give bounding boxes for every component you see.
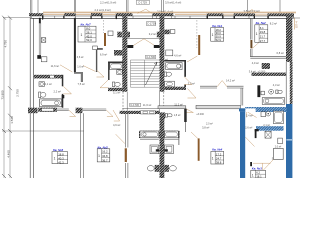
svg-text:6,9 м²: 6,9 м² — [100, 52, 107, 56]
svg-text:36,7: 36,7 — [102, 158, 108, 162]
blue bathroom band — [256, 126, 284, 131]
svg-text:2.750: 2.750 — [16, 89, 20, 97]
kitchen closet bar + dashed line — [102, 20, 104, 33]
gray corridor wall right part — [196, 105, 241, 108]
vertical bathtub — [273, 111, 283, 123]
svg-text:1: 1 — [212, 33, 214, 37]
svg-text:3,9 м²(1,4 м²): 3,9 м²(1,4 м²) — [165, 1, 181, 5]
svg-text:2,2 м²(1,9 м²): 2,2 м²(1,9 м²) — [100, 1, 116, 5]
bottom hatched wall — [164, 87, 186, 90]
toilet sideways — [112, 82, 114, 87]
svg-text:27,7: 27,7 — [260, 39, 266, 43]
east bathroom east wall — [178, 132, 180, 145]
svg-text:3,3 м²: 3,3 м² — [188, 81, 195, 85]
vestibule door caret — [133, 39, 155, 46]
left dimension lines — [2, 18, 84, 178]
bathtub — [110, 63, 123, 69]
svg-text:2,4 м²: 2,4 м² — [246, 115, 253, 118]
stairwell east wall (hatched top and bottom column) — [160, 16, 165, 92]
tan sill lines in window gaps — [43, 14, 268, 16]
door arcs into bathroom/hall — [100, 80, 108, 88]
svg-text:6,8 м²: 6,8 м² — [277, 51, 284, 55]
svg-text:52,0: 52,0 — [86, 38, 92, 42]
interior wall x39-41 — [39, 18, 41, 24]
door gap + swing apt5 — [106, 110, 113, 117]
door arc — [63, 86, 71, 94]
svg-text:19,8: 19,8 — [260, 30, 266, 34]
svg-text:11,6 м²: 11,6 м² — [51, 64, 60, 68]
L stub wall at wall end — [74, 72, 83, 74]
svg-text:7,5 м²: 7,5 м² — [78, 82, 85, 86]
svg-text:4,0 м²: 4,0 м² — [252, 61, 259, 65]
hatched segment with white box — [38, 108, 57, 112]
svg-text:4,6 м²: 4,6 м² — [174, 53, 181, 57]
door arc — [184, 77, 192, 85]
bathroom bottom hatched wall — [108, 88, 127, 91]
blue corridor wall band — [245, 107, 287, 112]
hatched segment near stairwell — [120, 111, 141, 114]
svg-text:1: 1 — [252, 174, 254, 178]
svg-text:5,1 м²: 5,1 м² — [113, 91, 120, 95]
left exterior wall — [30, 14, 33, 178]
closet wall x96 with cap and box — [96, 48, 103, 49]
window reveal stubs under pier edges — [42, 16, 269, 20]
svg-text:14,2 м²: 14,2 м² — [226, 79, 235, 83]
svg-text:21,7: 21,7 — [260, 35, 266, 39]
thin walls below tubs — [140, 138, 159, 140]
kitchen door swing — [60, 65, 72, 72]
svg-text:С-1729: С-1729 — [147, 22, 156, 26]
svg-text:1.540: 1.540 — [10, 116, 14, 124]
balcony texts above wall — [95, 1, 260, 14]
svg-text:52,9: 52,9 — [216, 38, 222, 42]
chimney block + white box mid room — [37, 55, 41, 59]
svg-text:3,2 м²: 3,2 м² — [149, 32, 156, 36]
svg-text:4.460: 4.460 — [7, 150, 11, 158]
svg-text:С-1730: С-1730 — [146, 55, 155, 59]
white box left of shaft — [108, 31, 113, 36]
svg-text:4,1 м²: 4,1 м² — [45, 82, 52, 86]
svg-text:2,0 м²: 2,0 м² — [206, 123, 213, 126]
door swing at hall wall — [187, 56, 197, 62]
svg-text:6,1: 6,1 — [260, 26, 264, 30]
partition apt6/apt5 — [81, 113, 84, 178]
thin wall x82-106 — [82, 109, 106, 110]
door arc bottom — [263, 159, 274, 171]
stairwell west wall — [122, 16, 127, 92]
stair flight label box C-1729 (in shaft) — [146, 22, 156, 26]
svg-text:+3.000: +3.000 — [196, 113, 204, 116]
stairs treads — [131, 60, 160, 87]
apt1 bathroom — [164, 60, 186, 62]
svg-text:38,8: 38,8 — [216, 161, 222, 165]
vent box with X — [265, 131, 271, 138]
black L wall stub — [255, 129, 259, 131]
bathtub — [262, 98, 284, 105]
bathtub — [166, 63, 182, 70]
door arc into room from hall — [245, 137, 254, 147]
svg-text:С-1730: С-1730 — [130, 103, 139, 107]
west washer + toilet — [150, 145, 159, 154]
vent block — [262, 63, 270, 69]
inner vent blocks — [127, 32, 130, 38]
apt2 bathroom — [257, 85, 260, 97]
svg-text:Кв. №1: Кв. №1 — [212, 24, 222, 28]
svg-text:С-1729: С-1729 — [138, 1, 147, 5]
svg-text:ОП-4: ОП-4 — [295, 21, 299, 28]
toilet — [39, 92, 41, 98]
svg-text:1: 1 — [98, 154, 100, 158]
svg-text:4,6 м²: 4,6 м² — [113, 123, 120, 127]
balcony door swings top — [137, 9, 152, 13]
svg-text:8,2 м²: 8,2 м² — [270, 21, 277, 25]
door swing apt4 entry — [186, 109, 194, 113]
door leaf brown — [125, 148, 127, 162]
svg-text:4.750: 4.750 — [4, 40, 8, 48]
svg-text:1: 1 — [81, 33, 83, 37]
svg-text:1,6 м²: 1,6 м² — [77, 66, 84, 69]
hatched band with tubs — [139, 131, 180, 138]
svg-text:11,6 м²: 11,6 м² — [143, 103, 152, 107]
svg-text:42,3: 42,3 — [58, 160, 64, 164]
stair flight label box C-1729 (top) — [136, 1, 149, 5]
svg-text:2,1 м²: 2,1 м² — [263, 124, 270, 127]
toilet — [276, 90, 278, 94]
west bathtub — [140, 131, 159, 138]
axis lines above top wall — [30, 0, 280, 14]
east bathtub — [165, 131, 179, 138]
east wall of bathroom — [62, 75, 64, 87]
svg-text:1,8 м²: 1,8 м² — [174, 114, 181, 117]
sink — [39, 82, 45, 87]
inner face line of top wall — [30, 17, 294, 19]
corridor labels — [130, 103, 141, 106]
closet room — [274, 148, 284, 159]
svg-text:73.800: 73.800 — [1, 90, 5, 100]
top wall: tan rail line — [43, 11, 296, 13]
T junction block at partition — [76, 108, 83, 114]
toilet — [164, 72, 166, 76]
round basin — [269, 89, 274, 94]
small white box — [278, 138, 283, 144]
blue left wall with cap — [239, 108, 246, 111]
black block right of bathroom — [62, 95, 65, 98]
gray corridor wall (south of apt1) — [158, 106, 186, 109]
apt5 east wall — [125, 114, 128, 178]
apt4 wc block + toilet at top — [160, 113, 165, 120]
dashed balcony line + closet bar in apt1 room — [196, 20, 198, 48]
vent blocks at stairwell west wall — [117, 32, 122, 38]
east washer + toilet — [165, 145, 174, 154]
door gap + swing — [69, 110, 76, 117]
svg-text:1: 1 — [256, 32, 258, 36]
svg-text:2,2 м²(1,9 м²): 2,2 м²(1,9 м²) — [95, 8, 111, 12]
electrical panel block — [28, 108, 38, 114]
thin corridor landing line — [122, 108, 158, 110]
svg-text:1: 1 — [54, 157, 56, 161]
svg-text:Кв. №4: Кв. №4 — [212, 148, 222, 152]
partition x250 with door — [250, 18, 252, 57]
right exterior wall: pier + hatched + gray + blue — [286, 13, 294, 17]
door jamb + tan chord above table 3 — [250, 162, 252, 166]
apt3 bathroom fixtures — [261, 112, 266, 117]
sink — [117, 70, 123, 75]
entry door swing — [245, 110, 256, 117]
small sink box — [261, 91, 265, 95]
stair flight label box C-1730 (mid shaft) — [146, 55, 156, 58]
kitchen/room wall x74-76 — [74, 18, 76, 72]
vent box with X — [41, 38, 46, 43]
svg-text:2,0 м²: 2,0 м² — [275, 146, 282, 149]
top wall piers (hatched) — [29, 13, 294, 16]
wall y86 from x200 to blue wall — [200, 86, 244, 105]
apt4 door post — [184, 109, 187, 122]
apt2 wall y57 — [250, 57, 286, 59]
vestibule side stubs — [127, 45, 133, 48]
svg-text:3,6 м²: 3,6 м² — [77, 56, 84, 59]
apt7 lower bathroom: top hatched wall — [34, 75, 62, 79]
svg-text:2,6 м²: 2,6 м² — [245, 126, 252, 130]
svg-text:1: 1 — [212, 156, 214, 160]
kitchen counter — [166, 50, 173, 56]
stair arrow — [146, 62, 158, 85]
bathtub horizontal — [40, 99, 62, 107]
svg-text:4,3 м²: 4,3 м² — [273, 83, 280, 87]
svg-text:2,2 м²: 2,2 м² — [54, 90, 61, 94]
continuous window box row — [32, 16, 289, 19]
svg-text:11,2 м²: 11,2 м² — [174, 102, 183, 106]
svg-text:3,8 м²: 3,8 м² — [202, 126, 209, 130]
apt7 upper bathroom (by stairwell) — [108, 62, 124, 64]
thin wall x57-69 — [57, 109, 69, 110]
hatched wall y72.8 — [252, 73, 287, 76]
svg-text:18,1: 18,1 — [256, 175, 262, 178]
vent block + box right of stairwell — [164, 30, 169, 35]
sink — [165, 81, 175, 87]
apt1 entry door swing from corridor — [188, 89, 197, 99]
elevator shaft area between stair walls — [127, 37, 159, 39]
